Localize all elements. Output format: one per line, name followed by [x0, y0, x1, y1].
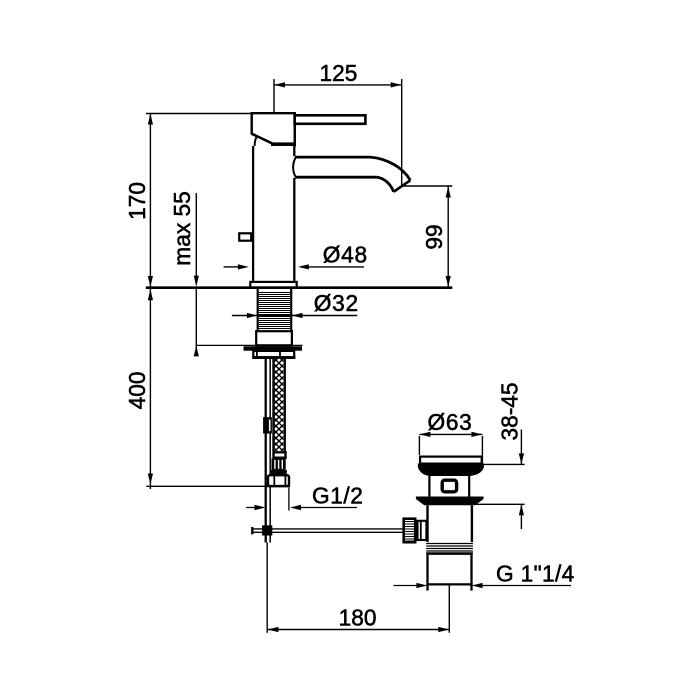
overflow window: [442, 480, 456, 492]
lever handle bar: [295, 115, 366, 124]
handle skirt left arc: [255, 136, 257, 146]
dimension G1"1/4 left arrow: [394, 585, 417, 587]
countertop line: [146, 286, 453, 289]
hose ribbed section: [272, 459, 286, 470]
dimension max55 line upper: [195, 193, 197, 285]
flexible hose braid: [275, 359, 284, 451]
svg-text:G 1"1/4: G 1"1/4: [496, 561, 575, 587]
dimension 125 line: [274, 84, 402, 86]
drain tailpipe bottom edge: [426, 583, 472, 585]
drain thread rings: [426, 544, 473, 552]
dimension Ø48 arrows: [224, 266, 238, 268]
rod tail line: [266, 543, 268, 633]
flexible hose right edge: [284, 359, 286, 452]
faucet body left edge: [252, 146, 254, 281]
pop-up linkage horizontal bar bottom line: [252, 531, 403, 533]
drain neck left edge: [428, 476, 430, 497]
hose collar band: [271, 470, 287, 474]
svg-text:Ø63: Ø63: [428, 409, 473, 435]
drain body left edge: [426, 505, 428, 542]
mounting nut bottom edge: [252, 356, 295, 359]
drain plug cap: [420, 457, 482, 464]
mounting nut facet lines: [257, 351, 280, 357]
drain centre extension line: [448, 586, 450, 633]
dimension G1"1/4 right arrow: [472, 583, 483, 588]
spout rear cap arc: [293, 158, 296, 178]
dimension 38-45 line: [520, 430, 522, 530]
handle base black band: [271, 142, 296, 146]
faucet cartridge right edge over bar: [294, 112, 296, 147]
dimension 99 extension line: [403, 185, 452, 187]
drain tailpipe left edge: [426, 555, 428, 591]
drain lower flange: [416, 497, 484, 506]
faucet cartridge housing top edge: [250, 112, 296, 114]
flexible hose left edge: [272, 359, 275, 452]
spout tip face: [394, 180, 411, 192]
hose nut: [268, 475, 289, 486]
dimension 400 bottom extension line: [146, 485, 268, 487]
drain tailpipe right edge: [470, 555, 472, 591]
dimension G1/2 right extension line: [288, 488, 290, 511]
linkage pivot block: [262, 525, 272, 535]
hose end fitting: [274, 452, 286, 457]
dimension 99 line: [447, 187, 449, 288]
rod sleeve slit: [269, 420, 271, 432]
drain cap black band with trumpet fillets: [418, 463, 484, 476]
dimension Ø32 line: [232, 315, 357, 317]
mounting nut: [253, 351, 294, 357]
base flange: [250, 282, 296, 288]
rod connector sleeve: [263, 417, 272, 433]
drain body right edge: [471, 505, 473, 542]
threaded shank left edge: [257, 289, 259, 331]
hose nut facet lines: [274, 476, 285, 486]
washer: [244, 346, 303, 350]
dimension Ø63 line: [419, 433, 482, 435]
shank thread stripes: [259, 293, 290, 329]
faucet body right edge: [293, 146, 295, 281]
knurled knob: [404, 519, 416, 543]
linkage bar left end cap: [251, 527, 253, 534]
washer edge line: [196, 344, 303, 346]
faucet cartridge right edge: [294, 112, 296, 147]
pop-up linkage horizontal bar top line: [252, 528, 403, 530]
svg-text:Ø32: Ø32: [314, 290, 359, 316]
svg-text:max 55: max 55: [169, 191, 195, 265]
spout top edge: [295, 157, 410, 180]
pop-up rod right line: [269, 359, 271, 543]
svg-text:400: 400: [124, 372, 150, 410]
dimension 38-45 extension lines: [475, 464, 525, 504]
dimension 125 extension lines: [274, 79, 402, 186]
pop-up rod left line: [265, 359, 267, 543]
dimension 170 top extension line: [146, 113, 250, 115]
side tab on body: [239, 233, 251, 240]
hose rib slits: [274, 460, 275, 469]
handle skirt diagonal bottom edge: [251, 134, 275, 145]
threaded shank right edge: [290, 289, 292, 331]
svg-text:125: 125: [320, 60, 358, 86]
svg-text:38-45: 38-45: [497, 382, 523, 440]
knob connector: [418, 521, 427, 540]
drain neck right edge: [468, 476, 470, 497]
hose nut bottom edge: [267, 485, 290, 487]
spout bottom edge: [295, 177, 394, 192]
dimension G1/2 right arrow: [290, 505, 301, 510]
shank collar: [256, 331, 292, 345]
svg-text:Ø48: Ø48: [323, 242, 368, 268]
dimension max55 line lower: [195, 289, 197, 356]
dimension 170 line: [149, 114, 151, 288]
svg-text:170: 170: [124, 182, 150, 220]
dimension G1/2 left arrow: [246, 507, 256, 509]
dimension Ø63 extension lines: [419, 436, 482, 464]
dimension 180 line: [267, 629, 449, 631]
faucet cartridge left edge: [250, 112, 252, 134]
svg-text:G1/2: G1/2: [312, 483, 363, 509]
svg-text:180: 180: [339, 605, 377, 631]
svg-text:99: 99: [421, 224, 447, 249]
dimension 400 line: [149, 289, 151, 489]
